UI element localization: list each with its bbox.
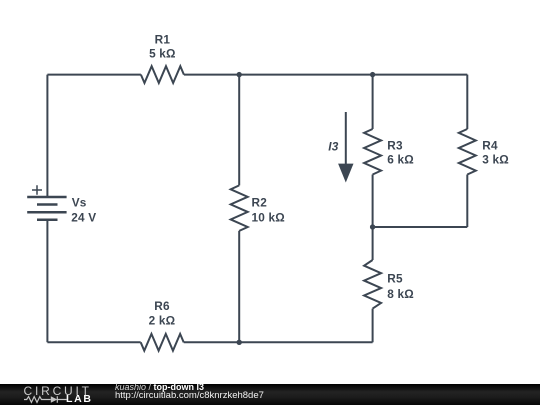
svg-text:R2: R2 — [252, 196, 268, 210]
wire R3 lower — [372, 175, 374, 228]
svg-text:24 V: 24 V — [71, 211, 96, 225]
svg-text:6 kΩ: 6 kΩ — [387, 153, 414, 167]
svg-text:R4: R4 — [482, 138, 498, 152]
resistor R2 — [231, 185, 248, 231]
svg-text:R1: R1 — [155, 33, 171, 47]
CircuitLab logo text CIRCUIT — [24, 384, 92, 398]
resistor R4 — [459, 129, 476, 175]
current arrow I3 — [338, 112, 353, 183]
resistor R1 — [141, 66, 184, 83]
wire bottom-left segment — [47, 341, 140, 343]
CircuitLab logo text LAB — [66, 393, 93, 405]
wire R3 upper — [372, 75, 374, 129]
junction node bottom-R2 — [237, 340, 242, 345]
wire R2 upper — [238, 75, 240, 186]
svg-text:3 kΩ: 3 kΩ — [482, 153, 509, 167]
svg-text:10 kΩ: 10 kΩ — [252, 210, 285, 224]
junction node top-R2 — [237, 72, 242, 77]
plus sign of Vs — [32, 185, 42, 195]
wire R5 upper — [372, 227, 374, 260]
svg-text:R3: R3 — [387, 138, 403, 152]
wire top-middle segment — [184, 74, 467, 76]
wire middle-right horizontal — [373, 226, 468, 228]
wire R5 lower — [372, 309, 374, 343]
wire bottom-right segment — [184, 341, 373, 343]
footer attribution line — [115, 382, 204, 392]
junction node top-R3 — [370, 72, 375, 77]
wire left vertical upper — [46, 75, 48, 197]
svg-text:I3: I3 — [328, 140, 338, 154]
svg-text:5 kΩ: 5 kΩ — [149, 47, 176, 61]
svg-text:8 kΩ: 8 kΩ — [387, 287, 414, 301]
wire left vertical lower — [46, 220, 48, 342]
wire top-left segment — [47, 74, 140, 76]
resistor R3 — [364, 129, 381, 175]
resistor R6 — [141, 334, 184, 351]
svg-text:R5: R5 — [387, 271, 403, 285]
wire R2 lower — [238, 231, 240, 342]
wire R4 lower — [466, 175, 468, 228]
resistor R5 — [364, 260, 381, 309]
wire R4 upper — [466, 75, 468, 129]
footer url line — [115, 390, 264, 401]
svg-text:R6: R6 — [154, 299, 170, 313]
svg-text:Vs: Vs — [72, 196, 87, 210]
junction node mid-R5 — [370, 224, 375, 229]
footer bar — [0, 384, 540, 405]
svg-text:2 kΩ: 2 kΩ — [149, 314, 176, 328]
CircuitLab logo wire with resistor and diode — [24, 395, 67, 405]
voltage source Vs — [27, 197, 66, 220]
